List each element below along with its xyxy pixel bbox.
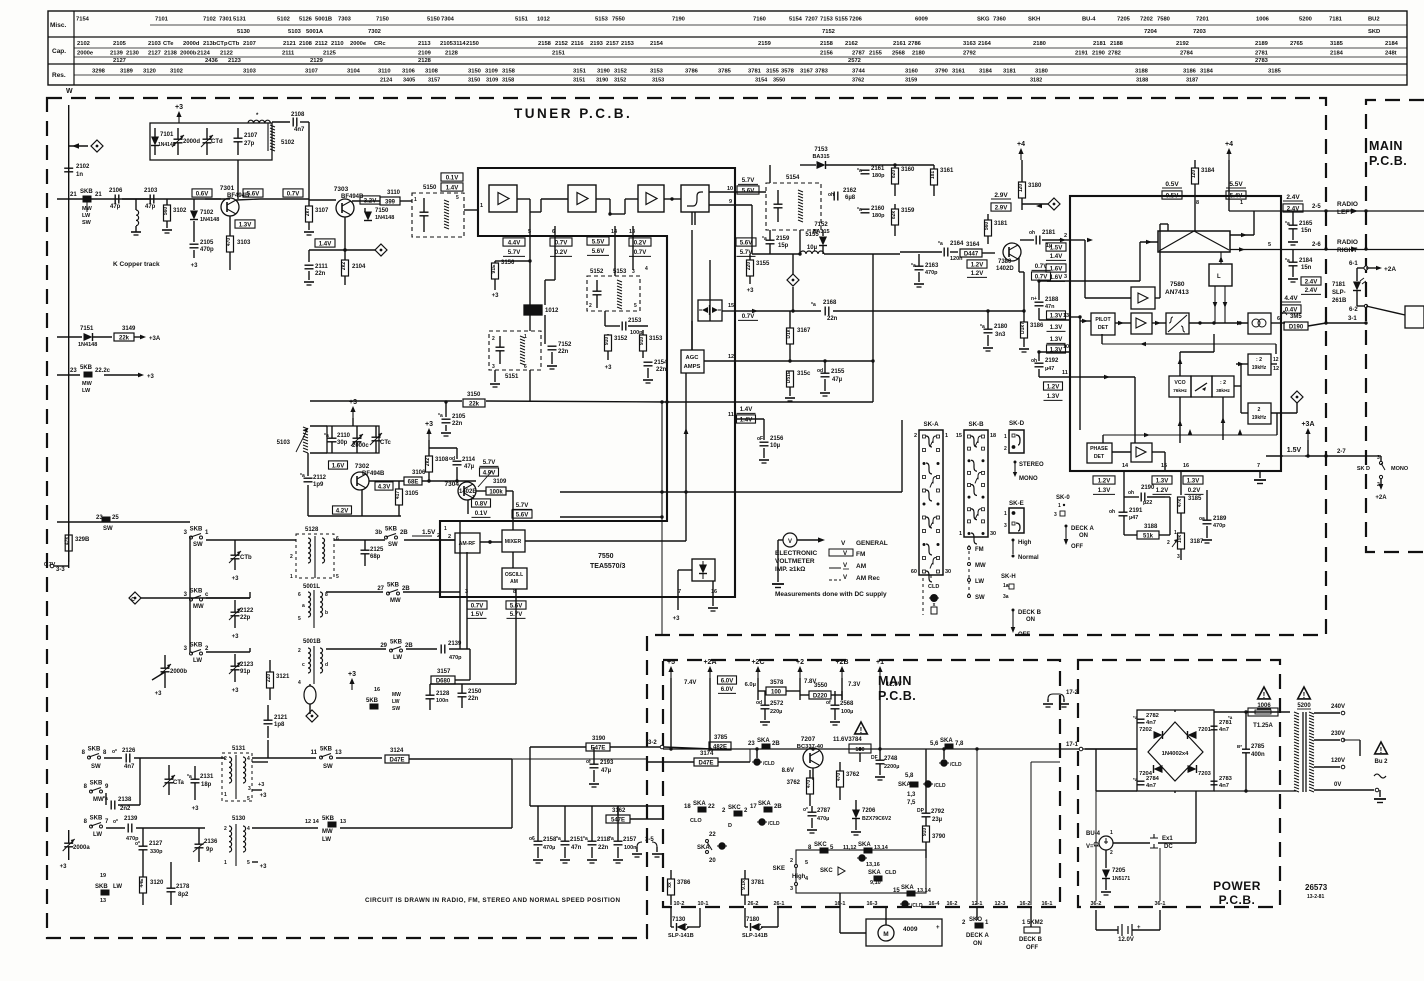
svg-text:SKA: SKA xyxy=(898,782,911,788)
svg-text:BZX79C6V2: BZX79C6V2 xyxy=(862,816,891,822)
svg-text:5: 5 xyxy=(1268,242,1271,248)
svg-text:2792: 2792 xyxy=(963,51,976,57)
svg-text:SW: SW xyxy=(193,542,203,548)
svg-text:0.7V: 0.7V xyxy=(634,249,647,256)
svg-text:22k: 22k xyxy=(469,402,480,408)
capacitor 2785 400n xyxy=(1242,748,1250,750)
svg-text:7150: 7150 xyxy=(376,17,389,23)
svg-text:0.1V: 0.1V xyxy=(475,510,488,517)
svg-text:of: of xyxy=(586,759,591,765)
svg-text:2124: 2124 xyxy=(380,78,393,84)
svg-text:22: 22 xyxy=(708,804,715,810)
svg-text:2: 2 xyxy=(298,648,301,654)
svg-text:330p: 330p xyxy=(150,849,163,855)
svg-text:5KB: 5KB xyxy=(80,365,93,371)
resistor 3786 xyxy=(668,879,675,895)
voltage 0.6V xyxy=(192,189,212,197)
svg-text:GENERAL: GENERAL xyxy=(856,540,888,547)
capacitor 2153 100p xyxy=(604,311,606,326)
wire schmitt right xyxy=(1189,322,1248,324)
svg-text:5: 5 xyxy=(336,574,339,580)
svg-text:*a: *a xyxy=(911,263,916,269)
switch deck a on off xyxy=(1065,525,1068,528)
svg-text:2000e: 2000e xyxy=(350,41,367,47)
svg-text:LW: LW xyxy=(82,213,91,219)
svg-text:3108: 3108 xyxy=(435,457,449,463)
svg-text:5: 5 xyxy=(247,860,250,866)
capacitor 2189 470p xyxy=(1203,519,1212,521)
svg-text:68p: 68p xyxy=(370,554,381,560)
svg-text:3160: 3160 xyxy=(901,167,915,173)
voltage 1.6V xyxy=(329,461,348,469)
svg-text:AMPS: AMPS xyxy=(684,364,701,370)
svg-text:22: 22 xyxy=(709,832,716,838)
svg-text:5150: 5150 xyxy=(423,185,437,191)
svg-text:3158: 3158 xyxy=(502,78,514,84)
voltage pair 5.5V 5.6V pin14 xyxy=(587,237,609,245)
supply +2A arrow xyxy=(709,670,711,678)
svg-text:100n: 100n xyxy=(624,845,637,851)
svg-text:6: 6 xyxy=(524,364,527,370)
svg-text:6.0µ: 6.0µ xyxy=(745,682,756,688)
wire 3150 row xyxy=(310,400,462,402)
svg-text:23µ: 23µ xyxy=(932,817,943,823)
svg-text:12.0V: 12.0V xyxy=(1118,937,1134,943)
svg-text:220: 220 xyxy=(746,262,752,271)
svg-text:a: a xyxy=(302,603,305,609)
svg-text:4n7: 4n7 xyxy=(1219,783,1229,789)
capacitor 2168 22n series xyxy=(824,307,826,316)
svg-text:22.2c: 22.2c xyxy=(95,368,111,374)
supply +3 AFC xyxy=(178,115,180,123)
svg-text:2792: 2792 xyxy=(931,809,945,815)
capacitor 2108 4n7 xyxy=(272,121,290,123)
svg-text:3784: 3784 xyxy=(848,737,862,743)
svg-text:BC337-40: BC337-40 xyxy=(797,744,823,750)
svg-text:BF494B: BF494B xyxy=(362,471,385,477)
svg-text:2191: 2191 xyxy=(1075,51,1089,57)
svg-text:470p: 470p xyxy=(925,270,938,276)
svg-text:0.5V: 0.5V xyxy=(1165,181,1179,188)
svg-text:3157: 3157 xyxy=(428,78,440,84)
svg-text:2105: 2105 xyxy=(113,41,127,47)
svg-text:2184: 2184 xyxy=(1330,51,1344,57)
svg-text:26-2: 26-2 xyxy=(747,901,758,907)
legend AM xyxy=(829,567,841,569)
svg-text:SKB: SKB xyxy=(95,884,108,890)
wire 2108 down xyxy=(300,121,309,123)
svg-text:5: 5 xyxy=(634,303,637,309)
svg-text:1p8: 1p8 xyxy=(274,722,285,728)
svg-text:MW: MW xyxy=(193,604,204,610)
transistor 7207 BC337-40 xyxy=(803,748,823,768)
svg-text:7303: 7303 xyxy=(338,17,352,23)
svg-text:3167: 3167 xyxy=(800,69,813,75)
svg-text:7207: 7207 xyxy=(801,736,816,743)
svg-text:3186: 3186 xyxy=(1183,69,1197,75)
svg-text:2108: 2108 xyxy=(291,112,305,118)
svg-text:SK-A: SK-A xyxy=(923,421,939,428)
svg-text:29: 29 xyxy=(380,643,387,649)
ladder FM MW LW SW xyxy=(968,545,970,598)
if amplifier 1 xyxy=(489,185,517,212)
svg-text:2161: 2161 xyxy=(893,41,907,47)
wire secondary 240V xyxy=(1314,712,1340,714)
resistor 3167 D1k xyxy=(787,328,794,344)
svg-text:3190: 3190 xyxy=(596,78,608,84)
svg-text:1.4V: 1.4V xyxy=(1050,253,1063,260)
svg-text:5102: 5102 xyxy=(281,140,295,146)
svg-text:3550: 3550 xyxy=(814,683,828,689)
svg-text:2130: 2130 xyxy=(126,51,139,57)
svg-text:3164: 3164 xyxy=(966,242,980,248)
svg-text:9.1k: 9.1k xyxy=(741,880,747,890)
svg-text:1: 1 xyxy=(1240,200,1243,206)
svg-text:3786: 3786 xyxy=(677,880,691,886)
diode 7102 1N4148 xyxy=(193,199,195,210)
svg-text:MAIN: MAIN xyxy=(1369,139,1403,153)
svg-text:3121: 3121 xyxy=(276,674,290,680)
voltage pair 1.6V 1.6V xyxy=(1046,264,1066,272)
svg-text:7151: 7151 xyxy=(80,326,94,332)
capacitor 2787 470u xyxy=(808,811,817,813)
voltage pair 1.2V 1.3V pin11 xyxy=(1044,382,1063,390)
supply +2C arrow xyxy=(757,670,759,678)
svg-text:910: 910 xyxy=(639,337,645,346)
svg-text:SK-H: SK-H xyxy=(1001,574,1016,580)
wire div38 down xyxy=(1222,397,1224,440)
svg-text:2128: 2128 xyxy=(418,58,432,64)
svg-text:+3: +3 xyxy=(260,864,268,870)
svg-text:26573: 26573 xyxy=(1305,883,1328,892)
svg-text:SW: SW xyxy=(975,595,985,601)
wire bridge input 17-1 xyxy=(1085,748,1137,750)
svg-text:16-1: 16-1 xyxy=(1041,901,1052,907)
svg-text:2151: 2151 xyxy=(552,51,566,57)
svg-text:470: 470 xyxy=(806,780,812,789)
resistor 3790 xyxy=(923,826,930,842)
POWER P.C.B. dashed outline xyxy=(1078,660,1280,907)
wire vco up xyxy=(1179,352,1181,376)
connector SK-A xyxy=(919,430,943,575)
svg-text:2102: 2102 xyxy=(77,41,90,47)
svg-text:3151: 3151 xyxy=(573,78,585,84)
svg-text:MW: MW xyxy=(392,692,401,698)
svg-text:CTc: CTc xyxy=(380,440,392,446)
svg-text:3783: 3783 xyxy=(815,69,829,75)
svg-text:x: x xyxy=(933,602,936,608)
svg-text:2123: 2123 xyxy=(240,662,254,668)
wire amrf to mixer xyxy=(480,541,502,543)
diode 7150 1N4148 xyxy=(364,208,366,212)
svg-text:2000a: 2000a xyxy=(73,845,90,851)
vco 76kHz block xyxy=(1169,376,1191,397)
svg-text:2103: 2103 xyxy=(148,41,162,47)
svg-text:7153: 7153 xyxy=(814,147,828,153)
svg-text:2161: 2161 xyxy=(871,166,885,172)
svg-text:5KB: 5KB xyxy=(366,698,379,704)
svg-text:3151: 3151 xyxy=(573,69,587,75)
svg-text:4n7: 4n7 xyxy=(1146,720,1156,726)
svg-text:1N4148: 1N4148 xyxy=(78,342,97,348)
svg-text:560: 560 xyxy=(163,207,169,216)
svg-text:2.4V: 2.4V xyxy=(1305,287,1318,294)
wire x1326 terminals column xyxy=(1324,454,1327,457)
svg-text:+2C: +2C xyxy=(751,659,764,666)
main right connector box xyxy=(1405,306,1424,328)
svg-text:5102: 5102 xyxy=(277,17,290,23)
svg-text:7304: 7304 xyxy=(445,481,460,488)
battery 12.0V xyxy=(1118,924,1132,936)
svg-text:D680: D680 xyxy=(436,679,451,685)
svg-text:2116: 2116 xyxy=(571,41,584,47)
transistor 7380 1402D xyxy=(1003,243,1021,261)
wire amp2 to amp3 xyxy=(596,198,610,200)
svg-text:D: D xyxy=(728,823,732,829)
capacitor 2159 15p xyxy=(766,239,775,241)
svg-text:BF494B: BF494B xyxy=(341,194,364,200)
svg-text:3-1: 3-1 xyxy=(1348,316,1357,322)
svg-text:0.7V: 0.7V xyxy=(742,313,755,320)
svg-text:2000d: 2000d xyxy=(183,139,200,145)
svg-text:3120: 3120 xyxy=(150,880,164,886)
svg-text:3109: 3109 xyxy=(485,69,499,75)
wire bl to main xyxy=(512,758,648,760)
voltmeter circle xyxy=(783,533,797,547)
svg-text:*a: *a xyxy=(609,836,614,842)
svg-text:3150: 3150 xyxy=(468,78,480,84)
svg-text:4.4V: 4.4V xyxy=(1284,295,1298,302)
svg-text:3790: 3790 xyxy=(932,834,946,840)
svg-text:417: 417 xyxy=(395,491,401,500)
svg-text:3103: 3103 xyxy=(243,69,257,75)
svg-text:*a: *a xyxy=(980,324,985,330)
supply +2 arrow xyxy=(799,670,801,678)
svg-text:3167: 3167 xyxy=(797,328,811,334)
diamond node bl xyxy=(306,710,318,722)
svg-text:3190: 3190 xyxy=(592,736,606,742)
svg-text:CLD: CLD xyxy=(928,584,939,590)
bridge diode 7202 xyxy=(1154,731,1163,739)
svg-text:1: 1 xyxy=(1058,503,1061,509)
wire mixer feed down xyxy=(512,491,514,521)
svg-text:RADIO: RADIO xyxy=(1337,239,1358,246)
wire L block down xyxy=(1214,286,1216,323)
svg-text:P.C.B.: P.C.B. xyxy=(1369,154,1407,168)
svg-text:5.7V: 5.7V xyxy=(508,249,521,256)
svg-text:2151: 2151 xyxy=(570,837,584,843)
capacitor 2105b 22n xyxy=(445,402,447,417)
bridge rectifier 1N4002x4 xyxy=(1148,722,1203,781)
svg-text:1.5V: 1.5V xyxy=(1287,447,1302,454)
svg-text:: 2: : 2 xyxy=(1220,380,1226,386)
capacitor 2105 470p xyxy=(193,221,195,242)
capacitor 2126 4n7 series xyxy=(125,754,127,763)
wire bu4 down xyxy=(1105,850,1107,868)
svg-text:2162: 2162 xyxy=(843,188,857,194)
svg-text:3149: 3149 xyxy=(122,326,136,332)
socket BU-4 xyxy=(1099,836,1113,850)
svg-text:2572: 2572 xyxy=(848,58,861,64)
svg-text:3578: 3578 xyxy=(781,69,795,75)
svg-text:E47E: E47E xyxy=(591,746,606,752)
svg-text:1: 1 xyxy=(1004,434,1007,440)
wire column x470 xyxy=(469,649,471,680)
svg-text:1: 1 xyxy=(224,860,227,866)
svg-text:7,5: 7,5 xyxy=(907,800,916,806)
svg-text:470: 470 xyxy=(226,238,232,247)
svg-text:!: ! xyxy=(1263,691,1266,700)
svg-text:7550: 7550 xyxy=(598,553,614,560)
divider 2 19kHz block lower xyxy=(1248,403,1271,424)
svg-text:3187: 3187 xyxy=(1186,78,1198,84)
svg-text:3106: 3106 xyxy=(402,69,416,75)
svg-text:3184: 3184 xyxy=(1201,168,1215,174)
svg-text:SLP-141B: SLP-141B xyxy=(668,933,694,939)
pilot detector block xyxy=(1091,313,1115,335)
crystal 1012 xyxy=(524,305,542,315)
svg-text:d: d xyxy=(325,662,328,668)
capacitor 7152 22n xyxy=(544,315,546,344)
svg-text:SKD: SKD xyxy=(1368,29,1380,35)
svg-text:2787: 2787 xyxy=(817,808,831,814)
table rule misc xyxy=(150,24,1407,26)
svg-text:oh: oh xyxy=(828,192,834,198)
svg-text:3159: 3159 xyxy=(905,78,917,84)
svg-text:!: ! xyxy=(860,726,863,735)
svg-text:0.7V: 0.7V xyxy=(471,602,484,609)
svg-text:V: V xyxy=(788,539,792,545)
svg-text:1N5171: 1N5171 xyxy=(1112,876,1130,882)
svg-text:CLO: CLO xyxy=(690,818,702,824)
svg-text:1.4V: 1.4V xyxy=(319,240,332,247)
svg-text:1402D: 1402D xyxy=(996,266,1014,272)
deemphasis block L xyxy=(1209,264,1232,286)
voltage 1.3V xyxy=(235,220,255,228)
svg-text:1: 1 xyxy=(414,197,417,203)
svg-text:SKB: SKB xyxy=(90,816,103,822)
svg-text:High: High xyxy=(792,874,806,880)
svg-text:400n: 400n xyxy=(1251,752,1265,758)
svg-text:2: 2 xyxy=(437,533,440,539)
resistor 3103 xyxy=(229,216,231,236)
phase mod block xyxy=(1191,376,1212,397)
svg-text:2122: 2122 xyxy=(220,51,233,57)
diode 7205 1N5171 xyxy=(1102,870,1110,879)
svg-text:3108: 3108 xyxy=(425,69,439,75)
svg-text:+1: +1 xyxy=(876,659,884,666)
capacitor 2131 18p xyxy=(191,778,200,780)
svg-text:µ22: µ22 xyxy=(1143,500,1152,506)
svg-text:5131: 5131 xyxy=(233,17,247,23)
svg-text:1: 1 xyxy=(290,574,293,580)
svg-text:2123: 2123 xyxy=(228,58,242,64)
capacitor 2118 22n xyxy=(588,840,597,842)
am detector diode box xyxy=(692,559,715,581)
svg-text:*a: *a xyxy=(438,413,443,419)
svg-text:3: 3 xyxy=(492,364,495,370)
svg-text:2152: 2152 xyxy=(555,41,568,47)
svg-text:2B: 2B xyxy=(402,586,410,592)
svg-text:16: 16 xyxy=(1183,463,1189,469)
svg-text:7181: 7181 xyxy=(1329,17,1343,23)
svg-text:5: 5 xyxy=(805,860,808,866)
pin 3 stereo wire xyxy=(1040,280,1070,282)
svg-text:91E: 91E xyxy=(491,264,497,274)
svg-text:!: ! xyxy=(1380,746,1383,755)
svg-text:1N4148: 1N4148 xyxy=(375,215,394,221)
svg-text:3298: 3298 xyxy=(92,69,106,75)
svg-text:3106: 3106 xyxy=(412,470,426,476)
svg-text:76kHz: 76kHz xyxy=(1173,388,1187,394)
transistor 7302 BF494B xyxy=(351,472,369,490)
resistor 3121 xyxy=(267,672,274,688)
divider 38kHz block xyxy=(1212,376,1234,397)
svg-text:SK D: SK D xyxy=(1357,466,1370,472)
svg-text:µ47: µ47 xyxy=(1045,366,1054,372)
svg-text:3159: 3159 xyxy=(901,208,915,214)
svg-text:100: 100 xyxy=(771,690,782,696)
svg-text:27p: 27p xyxy=(244,141,255,147)
svg-text:6-1: 6-1 xyxy=(1349,261,1358,267)
svg-text:FM: FM xyxy=(856,551,865,558)
svg-text:3161: 3161 xyxy=(940,168,954,174)
svg-text:2: 2 xyxy=(224,756,227,762)
svg-text:2102: 2102 xyxy=(76,164,90,170)
svg-text:DECK B: DECK B xyxy=(1018,610,1042,616)
svg-text:SKG: SKG xyxy=(977,17,990,23)
wire drops main pcb xyxy=(669,747,672,750)
svg-text:5130: 5130 xyxy=(232,816,246,822)
svg-text:3: 3 xyxy=(1054,512,1057,518)
svg-text:Measurements done with DC: Measurements done with DC supply xyxy=(775,591,887,598)
svg-text:47n: 47n xyxy=(1045,304,1055,310)
svg-text:91p: 91p xyxy=(240,669,251,675)
svg-text:D447: D447 xyxy=(964,252,979,258)
voltage pair 0.7V 0.2V pin6 xyxy=(550,238,572,246)
svg-text:TEA5570/3: TEA5570/3 xyxy=(590,563,626,570)
MAIN P.C.B. right dashed outline xyxy=(1366,100,1424,552)
svg-text:+3: +3 xyxy=(492,293,500,299)
trimmer 2123 91p xyxy=(231,665,240,667)
svg-text:MW: MW xyxy=(82,381,93,387)
wire emitter 7380 xyxy=(1018,258,1020,272)
svg-text:2191: 2191 xyxy=(1129,508,1143,514)
svg-text:5KB: 5KB xyxy=(322,816,335,822)
svg-text:2127: 2127 xyxy=(149,841,163,847)
svg-text:4.4V: 4.4V xyxy=(508,239,521,246)
svg-text:1,3: 1,3 xyxy=(907,792,916,798)
svg-text:47k: 47k xyxy=(1177,499,1183,508)
svg-text:9,10: 9,10 xyxy=(870,880,881,886)
cap-gnd symbol 1 xyxy=(754,759,760,765)
svg-text:230V: 230V xyxy=(1331,731,1345,737)
svg-text:4009: 4009 xyxy=(903,926,918,933)
svg-text:2180: 2180 xyxy=(994,324,1008,330)
svg-text:MW: MW xyxy=(975,563,986,569)
svg-text:/CLD: /CLD xyxy=(768,821,780,827)
wire 7301 collector xyxy=(236,199,260,200)
wire 5150 to IF amp pin1 xyxy=(464,209,478,211)
svg-text:7152: 7152 xyxy=(822,29,835,35)
svg-text:3153: 3153 xyxy=(649,336,663,342)
svg-text:2103: 2103 xyxy=(144,188,158,194)
svg-text:2: 2 xyxy=(492,336,495,342)
svg-text:7: 7 xyxy=(1257,463,1260,469)
svg-text:+3: +3 xyxy=(348,671,356,678)
wire SKB SW row main xyxy=(57,521,190,523)
svg-text:18: 18 xyxy=(990,433,996,439)
